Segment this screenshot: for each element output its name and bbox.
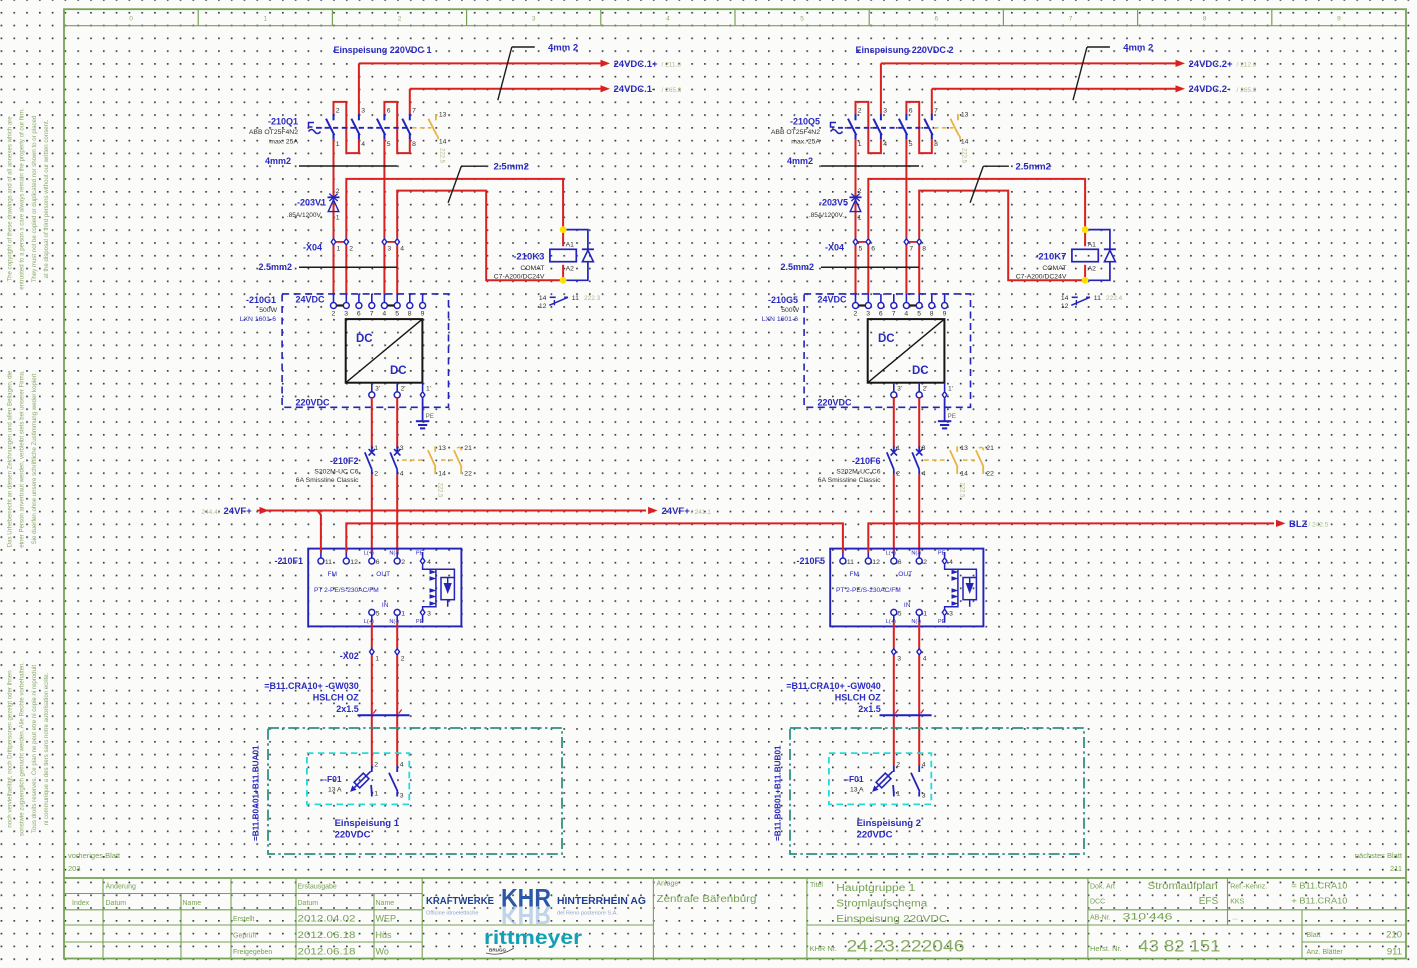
F1 terminal 5 [371,615,373,622]
relay -210K3 coil [562,265,564,281]
cable line 2x1.5 [358,714,410,716]
svg-text:EFS: EFS [1199,896,1219,907]
relay coil feed wire lower [397,191,563,281]
wire 24VDC.1- feeder [410,88,606,90]
svg-text:24VDC.1+: 24VDC.1+ [614,59,659,70]
svg-text:Einspeisung 1: Einspeisung 1 [335,818,400,829]
svg-text:13: 13 [960,445,968,452]
svg-text:6: 6 [357,311,361,318]
svg-text:4: 4 [949,559,953,566]
breaker mechanism dashed linkage [838,127,934,129]
X04 terminal 7 [905,238,907,245]
breaker mechanism dashed linkage [316,127,412,129]
G terminal jumper 4-5 [909,304,916,306]
svg-text:3': 3' [375,386,380,393]
svg-text:--F01: --F01 [321,774,342,784]
svg-text:2.5mm2: 2.5mm2 [494,162,529,173]
svg-text:1: 1 [375,656,379,663]
svg-text:noch vervielfaeltigt, noch Dri: noch vervielfaeltigt, noch Drittpersonen… [7,670,14,827]
svg-text:12: 12 [350,559,358,566]
G terminal 5 [396,294,398,303]
svg-text:6: 6 [909,108,913,115]
wire pole1 bottom to diode/X04 [855,139,857,239]
svg-text:DC: DC [356,333,373,345]
svg-text:6A Smissline Classic: 6A Smissline Classic [296,477,359,484]
breaker aux contact 13-14 [934,127,954,129]
G terminal 6 [358,294,360,303]
svg-text:-203V5: -203V5 [819,198,848,208]
wires F breaker to surge protector [893,474,895,552]
svg-text:einer Person anvertraut werden: einer Person anvertraut werden, verbleib… [19,370,26,548]
svg-text:IN: IN [904,602,911,609]
svg-text:43 82 151: 43 82 151 [1138,937,1220,956]
svg-text:A1: A1 [1088,241,1097,248]
svg-text:KHR: KHR [501,901,551,929]
svg-text:3: 3 [400,445,404,452]
svg-text:Dok. Art: Dok. Art [1090,883,1115,890]
cable label 4mm2 top [512,46,535,48]
svg-text:8: 8 [1203,16,1207,23]
svg-text:Sie duerfen ohne unsere schrif: Sie duerfen ohne unsere schriftliche Zus… [31,373,38,544]
svg-text:11: 11 [847,559,854,566]
junction node upper [560,226,567,233]
svg-text:ABB OT25F4N2: ABB OT25F4N2 [249,129,298,136]
svg-text:C7-A200/DC24V: C7-A200/DC24V [494,274,545,281]
breaker F pole 1-2 [371,446,373,452]
F1 terminal 2 [396,552,398,558]
wires F1 to X02 [371,622,373,648]
svg-text:11: 11 [572,295,579,302]
G terminal 2 [855,294,857,303]
svg-text:ABB OT25F4N2: ABB OT25F4N2 [771,129,820,136]
svg-text:220VDC: 220VDC [335,830,371,841]
F1 terminal 3 PE [944,616,946,622]
svg-text:9: 9 [421,311,425,318]
svg-text:11: 11 [325,559,332,566]
svg-text:6: 6 [871,246,875,253]
breaker pole contact 7-8 [931,114,933,120]
svg-text:IN: IN [382,602,389,609]
svg-text:7: 7 [370,311,374,318]
svg-text:Blatt: Blatt [1307,932,1321,939]
top ruler strip [64,25,1406,27]
DC/DC converter -210G5 enclosure [804,294,970,407]
DC/DC converter -210G1 enclosure [282,294,448,407]
monitoring bus to BLZ [868,523,1274,552]
breaker pole contact 3-4 [358,114,360,120]
wires X04 to G unit [333,246,335,295]
breaker pole contact 2-1 [333,114,335,120]
svg-text:2: 2 [349,246,353,253]
svg-text:The copyright of these drawing: The copyright of these drawings and of a… [7,116,14,282]
svg-text:24VF+: 24VF+ [224,506,253,517]
bus 24VF+ incoming arrow [257,510,263,512]
wires G outputs down to F breaker [893,398,895,447]
relay coil feed wire upper [346,179,563,246]
cable label 4mm2 top [1087,46,1110,48]
G terminal jumper 2-3 [859,304,866,306]
svg-text:PE: PE [426,413,434,420]
svg-text:Einspeisung 220VDC: Einspeisung 220VDC [836,914,947,925]
wires F breaker to surge protector [371,474,373,552]
svg-text:2.5mm2: 2.5mm2 [1016,162,1051,173]
svg-text:/ 241.1: / 241.1 [691,509,711,516]
svg-text:7: 7 [892,311,896,318]
svg-text:210: 210 [1386,929,1402,940]
svg-text:3: 3 [866,311,870,318]
svg-text:3: 3 [427,610,431,617]
svg-text:7: 7 [412,108,416,115]
svg-text:Officine idroelettriche: Officine idroelettriche [426,911,478,917]
DC/DC block symbol [346,319,423,383]
X04 terminal 4 [396,238,398,245]
svg-text:/ 265.8: / 265.8 [662,87,682,94]
svg-text:DC: DC [390,365,407,377]
svg-text:BRUGG: BRUGG [489,948,507,953]
svg-text:Einspeisung 2: Einspeisung 2 [857,818,921,829]
svg-text:Tous droits reserves. Ce plan: Tous droits reserves. Ce plan ne peut et… [31,665,38,833]
fuse switch pole 4-3 [918,766,920,773]
svg-text:4: 4 [666,16,670,23]
surge protector -210F5 box [830,549,983,627]
source cabinet box [790,728,1084,854]
svg-text:S202M-UC C6: S202M-UC C6 [836,469,880,476]
svg-text:7: 7 [1069,16,1073,23]
svg-text:24.23.222046: 24.23.222046 [847,937,965,956]
breaker F pole 3-4 [918,446,920,452]
G output terminal 3' [371,383,373,392]
svg-text:4: 4 [400,762,404,769]
F1 terminal 6 [371,552,373,558]
svg-text:2012.06.18: 2012.06.18 [298,930,356,940]
svg-text:5: 5 [800,16,804,23]
svg-text:24VDC: 24VDC [818,295,848,305]
svg-text:5: 5 [376,610,380,617]
fuse symbol body [869,768,895,794]
svg-text:3: 3 [400,793,404,800]
svg-text:6: 6 [898,559,902,566]
wire 24VDC.1+ feeder [359,62,606,64]
svg-text:Das Urheberrecht an diesen Zei: Das Urheberrecht an diesen Zeichnungen u… [7,370,14,547]
svg-text:HSLCH OZ: HSLCH OZ [313,693,360,703]
wires X02 down to fuse box [893,655,895,765]
svg-text:1': 1' [948,386,953,393]
svg-text:2': 2' [923,386,928,393]
svg-text:1: 1 [923,610,927,617]
G terminal 9 [422,294,424,303]
svg-text:HINTERRHEIN AG: HINTERRHEIN AG [557,895,646,907]
svg-text:220VDC: 220VDC [818,398,853,408]
svg-text:Einspeisung 220VDC 1: Einspeisung 220VDC 1 [334,45,433,56]
svg-text:/ 265.8: / 265.8 [1237,87,1257,94]
circuit breaker Q 210Q1 wiring staples [334,102,359,153]
svg-text:0: 0 [129,16,133,23]
svg-text:S202M-UC C6: S202M-UC C6 [314,469,358,476]
svg-text:1': 1' [426,386,431,393]
freewheel diode across coil [1085,230,1110,281]
F1 terminal 12 [345,552,347,558]
svg-text:6: 6 [879,311,883,318]
svg-text:N(-): N(-) [911,551,921,557]
svg-text:ni communique a des tiers sans: ni communique a des tiers sans notre aut… [43,672,50,825]
svg-text:2x1.5: 2x1.5 [336,704,359,714]
svg-text:9: 9 [943,311,947,318]
wires G outputs down to F breaker [371,398,373,447]
svg-text:203: 203 [68,864,81,873]
svg-text:2: 2 [854,311,858,318]
svg-text:6: 6 [934,16,938,23]
F1 terminal 4 PE [944,552,946,557]
svg-text:21: 21 [986,445,994,452]
svg-text:5: 5 [909,141,913,148]
svg-text:COMAT: COMAT [1042,265,1066,272]
svg-text:PT 2-PE/S-230AC/FM: PT 2-PE/S-230AC/FM [836,587,901,594]
svg-text:A1: A1 [566,241,575,248]
junction node lower [560,277,567,284]
svg-text:Wo: Wo [376,946,389,956]
svg-text:14: 14 [961,139,969,146]
svg-text:2.5mm2: 2.5mm2 [258,262,292,272]
svg-text:L(+): L(+) [886,551,896,557]
svg-text:Titel: Titel [810,882,823,889]
svg-text:222.5: 222.5 [961,148,967,164]
F1 terminal 11 [320,552,322,558]
svg-text:2: 2 [401,656,405,663]
svg-text:14: 14 [539,295,547,302]
svg-text:12: 12 [539,303,547,310]
svg-text:-210G5: -210G5 [768,295,798,305]
F1 terminal 4 PE [422,552,424,557]
svg-text:-X04: -X04 [825,243,844,253]
F1 terminal 11 [842,552,844,558]
svg-text:6A Smissline Classic: 6A Smissline Classic [818,477,881,484]
source cabinet box [268,728,562,854]
svg-text:max. 25A: max. 25A [791,139,820,146]
G terminal 2 [333,294,335,303]
svg-text:24VF+: 24VF+ [662,506,691,517]
svg-text:7: 7 [934,108,938,115]
svg-text:.85A/1200V.: .85A/1200V. [809,212,844,219]
svg-text:2.5mm2: 2.5mm2 [780,262,814,272]
svg-text:8: 8 [922,246,926,253]
cable line 2x1.5 [880,714,932,716]
svg-text:12: 12 [872,559,880,566]
svg-text:2: 2 [332,311,336,318]
bus wire 24VF+ [267,510,646,512]
svg-text:DC: DC [912,365,929,377]
svg-text:=B11.B0A01+B11.BUA01: =B11.B0A01+B11.BUA01 [252,745,261,841]
svg-text:-210K7: -210K7 [1035,252,1066,263]
F1 terminal 12 [867,552,869,558]
svg-text:24VDC.2-: 24VDC.2- [1189,84,1231,95]
breaker pole contact 2-1 [855,114,857,120]
G output terminal 2' [396,383,398,392]
G terminal 7 [893,294,895,303]
svg-text:14: 14 [960,471,968,478]
X04 terminal 8 [918,238,920,245]
X04 bridge links [856,241,869,243]
svg-text:3: 3 [532,16,536,23]
conductor marks [373,710,376,714]
svg-text:2: 2 [923,559,927,566]
svg-text:13 A: 13 A [328,787,342,794]
svg-text:24VDC.1-: 24VDC.1- [614,84,656,95]
wire 24VDC.2- feeder [932,88,1181,90]
svg-text:8: 8 [934,141,938,148]
svg-text:13: 13 [961,112,969,119]
F1 terminal 3 PE [422,616,424,622]
svg-text:=B11.CRA10+ -GW030: =B11.CRA10+ -GW030 [264,681,359,691]
svg-text:COMAT: COMAT [520,265,544,272]
svg-text:3: 3 [361,108,365,115]
svg-text:Zentrale Bärenburg: Zentrale Bärenburg [657,894,757,905]
PE ground symbol [944,399,946,422]
svg-text:4mm 2: 4mm 2 [1123,43,1153,54]
svg-text:-210Q1: -210Q1 [268,117,298,127]
svg-text:They must not be copied or dup: They must not be copied or duplicated no… [31,116,38,283]
F1 terminal 6 [893,552,895,558]
breaker F aux contact 13-14 [956,446,958,452]
breaker F aux contact 13-14 [434,446,436,452]
svg-text:Stromlaufplan: Stromlaufplan [1148,881,1218,892]
svg-text:8: 8 [408,311,412,318]
svg-text:2: 2 [374,762,378,769]
svg-text:=B11.B0B01+B11.BUB01: =B11.B0B01+B11.BUB01 [774,745,783,841]
G terminal 5 [918,294,920,303]
svg-text:-X02: -X02 [340,651,359,661]
svg-text:LXN 1601-6: LXN 1601-6 [240,316,276,323]
svg-text:PT 2-PE/S-230AC/FM: PT 2-PE/S-230AC/FM [314,587,379,594]
svg-text:8: 8 [412,141,416,148]
G terminal 8 [931,294,933,303]
X04 bridge links [334,241,347,243]
svg-text:sonstwie zugaenglich gemacht w: sonstwie zugaenglich gemacht werden. All… [19,662,26,836]
svg-text:4: 4 [400,471,404,478]
circuit breaker Q 210Q5 wiring staples [856,102,881,153]
svg-text:4: 4 [400,246,404,253]
X04 terminal 3 [383,238,385,245]
G output terminal 1' [944,383,946,392]
svg-text:24VDC: 24VDC [296,295,326,305]
thermal trip symbol [831,123,843,134]
svg-text:1: 1 [401,610,405,617]
G terminal jumper 2-3 [337,304,344,306]
conductor marks [895,710,898,714]
svg-text:C7-A200/DC24V: C7-A200/DC24V [1016,274,1067,281]
svg-text:KKS: KKS [1230,898,1244,905]
breaker F aux linkage [924,459,946,461]
svg-text:3: 3 [883,108,887,115]
relay coil feed wire lower [919,191,1085,281]
G terminal 9 [944,294,946,303]
freewheel diode across coil [563,230,588,281]
svg-text:4mm 2: 4mm 2 [548,43,578,54]
svg-text:4: 4 [923,656,927,663]
svg-text:-210F6: -210F6 [852,456,881,466]
G terminal 4 [383,294,385,303]
svg-text:entrusted to a person s care a: entrusted to a person s care always rema… [19,108,26,290]
junction node lower [1082,277,1089,284]
breaker pole contact 6-5 [383,114,385,120]
svg-text:5: 5 [917,311,921,318]
svg-text:2: 2 [401,559,405,566]
PE ground symbol [422,399,424,422]
svg-text:Hüs: Hüs [376,930,393,940]
svg-text:Herst. Nr.: Herst. Nr. [1090,944,1122,953]
wire pole1 bottom to diode/X04 [333,139,335,239]
svg-text:Erstausgabe: Erstausgabe [298,884,337,891]
svg-text:3: 3 [949,610,953,617]
svg-text:12: 12 [1061,303,1069,310]
breaker F aux contact 21-22 [979,447,984,450]
svg-text:2: 2 [896,471,900,478]
svg-text:-210G1: -210G1 [246,295,276,305]
svg-text:KHR Nr.: KHR Nr. [810,944,838,953]
svg-text:8: 8 [930,311,934,318]
svg-text:4: 4 [382,311,386,318]
svg-text:4: 4 [883,141,887,148]
thermal trip symbol [309,123,321,134]
svg-text:PE: PE [938,619,946,625]
svg-text:DC: DC [878,333,895,345]
svg-text:1: 1 [263,16,267,23]
svg-text:4: 4 [904,311,908,318]
varistor cartridge graphics [423,565,455,609]
svg-text:1: 1 [336,141,340,148]
svg-text:2x1.5: 2x1.5 [858,704,881,714]
svg-text:WEP: WEP [376,913,397,923]
svg-text:N(-): N(-) [389,551,399,557]
relay -210K7 coil [1084,265,1086,281]
svg-text:2': 2' [401,386,406,393]
svg-text:rittmeyer: rittmeyer [484,927,582,949]
svg-text:L(+): L(+) [364,551,374,557]
fuse unit box [829,753,931,804]
svg-text:/ 212.8: / 212.8 [1237,62,1257,69]
svg-text:4: 4 [922,762,926,769]
svg-text:Stromlaufschema: Stromlaufschema [836,898,928,909]
svg-text:Datum: Datum [298,900,319,907]
svg-text:Anlage: Anlage [657,881,679,888]
svg-text:911: 911 [1387,946,1402,957]
svg-text:2: 2 [336,108,340,115]
breaker pole contact 3-4 [880,114,882,120]
wire 24VDC.2+ feeder [881,62,1181,64]
svg-text:5: 5 [395,311,399,318]
svg-text:500W: 500W [259,307,277,314]
svg-text:-203V1: -203V1 [297,198,326,208]
svg-text:5: 5 [898,610,902,617]
svg-text:Hauptgruppe 1: Hauptgruppe 1 [836,883,916,894]
svg-text:at the disposal of third perso: at the disposal of third persons without… [43,119,50,278]
svg-text:2: 2 [398,16,402,23]
svg-text:.85A/1200V.: .85A/1200V. [287,212,322,219]
fuse switch pole 4-3 [396,766,398,773]
svg-text:1: 1 [858,141,862,148]
svg-text:1: 1 [896,791,900,798]
svg-text:1: 1 [374,445,378,452]
G terminal 6 [880,294,882,303]
svg-text:/ 211.8: / 211.8 [662,62,682,69]
X04 terminal 6 [867,238,869,245]
svg-text:3: 3 [344,311,348,318]
svg-text:211: 211 [1390,864,1402,873]
svg-text:14: 14 [438,471,446,478]
X02 terminal 1 [371,648,373,655]
wires F1 to X02 [893,622,895,648]
svg-text:4: 4 [922,471,926,478]
svg-text:AB-Nr.: AB-Nr. [1090,914,1111,921]
